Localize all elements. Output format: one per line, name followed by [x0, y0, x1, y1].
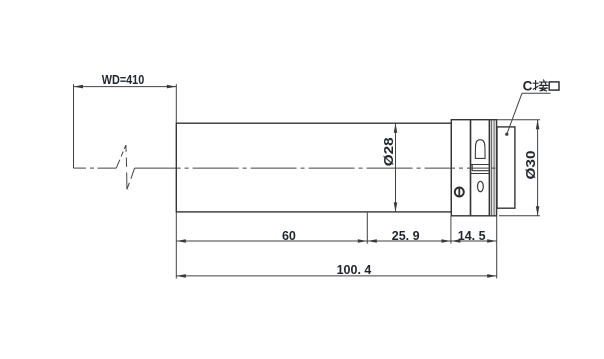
svg-text:C: C	[523, 79, 533, 94]
hand-drawn glyph 接	[533, 80, 548, 91]
focus ring section	[451, 120, 470, 216]
C-mount thread cylinder	[497, 127, 515, 208]
rear barrel section	[471, 120, 490, 216]
overall dimension 100.4	[176, 275, 496, 277]
C-mount leader line	[507, 93, 551, 134]
flange ring shading	[490, 120, 496, 215]
chained dimension line 60 / 25.9 / 14.5	[176, 240, 496, 242]
svg-text:WD=410: WD=410	[102, 73, 145, 87]
dia28 dimension (inside barrel)	[395, 123, 397, 212]
bottom extension lines	[176, 212, 496, 279]
svg-text:Ø30: Ø30	[524, 150, 538, 179]
hand-drawn glyph 口	[549, 82, 559, 90]
lens barrel main cylinder (dia 28)	[176, 123, 451, 212]
arch slot detail	[475, 140, 485, 159]
WD=410 dimension	[74, 84, 177, 168]
mid groove lines on rear section	[471, 165, 490, 174]
svg-text:14. 5: 14. 5	[458, 229, 486, 243]
svg-text:100. 4: 100. 4	[337, 263, 372, 277]
long-break zigzag symbol	[116, 145, 134, 189]
svg-text:Ø28: Ø28	[382, 137, 396, 166]
small oval hole	[478, 181, 484, 191]
set screw head on focus ring	[455, 188, 464, 197]
dia30 dimension at right	[497, 120, 540, 216]
flange ring inner lines	[492, 120, 495, 216]
svg-text:25. 9: 25. 9	[392, 229, 420, 243]
flange ring (dia 30)	[489, 120, 496, 216]
svg-text:60: 60	[282, 229, 296, 243]
centerline axis (dash-dot)	[74, 167, 496, 169]
